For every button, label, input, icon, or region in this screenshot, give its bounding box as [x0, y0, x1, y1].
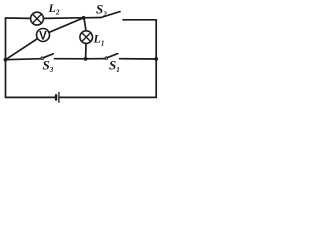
wire right vertical	[155, 20, 157, 98]
wire node A to lamp L1	[84, 18, 86, 31]
switch S2	[101, 12, 120, 18]
voltmeter V	[37, 29, 50, 42]
wire node B to switch S1 pivot	[86, 58, 105, 60]
svg-text:V: V	[39, 30, 47, 42]
node A junction dot	[82, 16, 86, 20]
wire top-left segment	[6, 17, 32, 19]
wire switch S2 to top-right corner	[123, 19, 156, 21]
wire bottom right of battery	[60, 96, 156, 98]
node right junction dot	[154, 57, 158, 61]
wire node A to switch S2 pivot	[84, 17, 102, 19]
node B junction dot	[84, 57, 88, 61]
lamp L1	[80, 31, 93, 44]
wire left vertical	[5, 18, 7, 97]
wire bottom left of battery	[6, 96, 55, 98]
wire diagonal voltmeter branch	[6, 18, 84, 60]
switch S3	[41, 54, 53, 60]
wire middle left segment	[6, 59, 42, 60]
battery	[56, 92, 59, 103]
wire lamp L2 to node A	[43, 17, 83, 20]
wire S3 to node B	[55, 58, 86, 60]
switch S1	[105, 54, 118, 60]
wire S1 to right vertical	[120, 58, 157, 60]
lamp L2	[31, 12, 44, 25]
node left junction dot	[4, 58, 8, 62]
wire lamp L1 to node B	[85, 43, 87, 59]
